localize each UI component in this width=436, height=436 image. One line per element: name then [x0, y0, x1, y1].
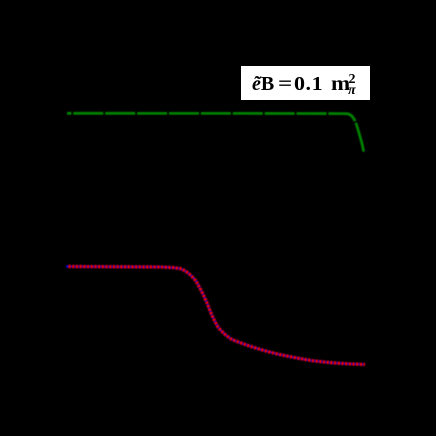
red dotted curve over blue: [68, 267, 365, 365]
blue solid curve (lower): [66, 267, 365, 365]
green dashed curve (upper): [67, 113, 364, 151]
label box: [241, 66, 370, 100]
